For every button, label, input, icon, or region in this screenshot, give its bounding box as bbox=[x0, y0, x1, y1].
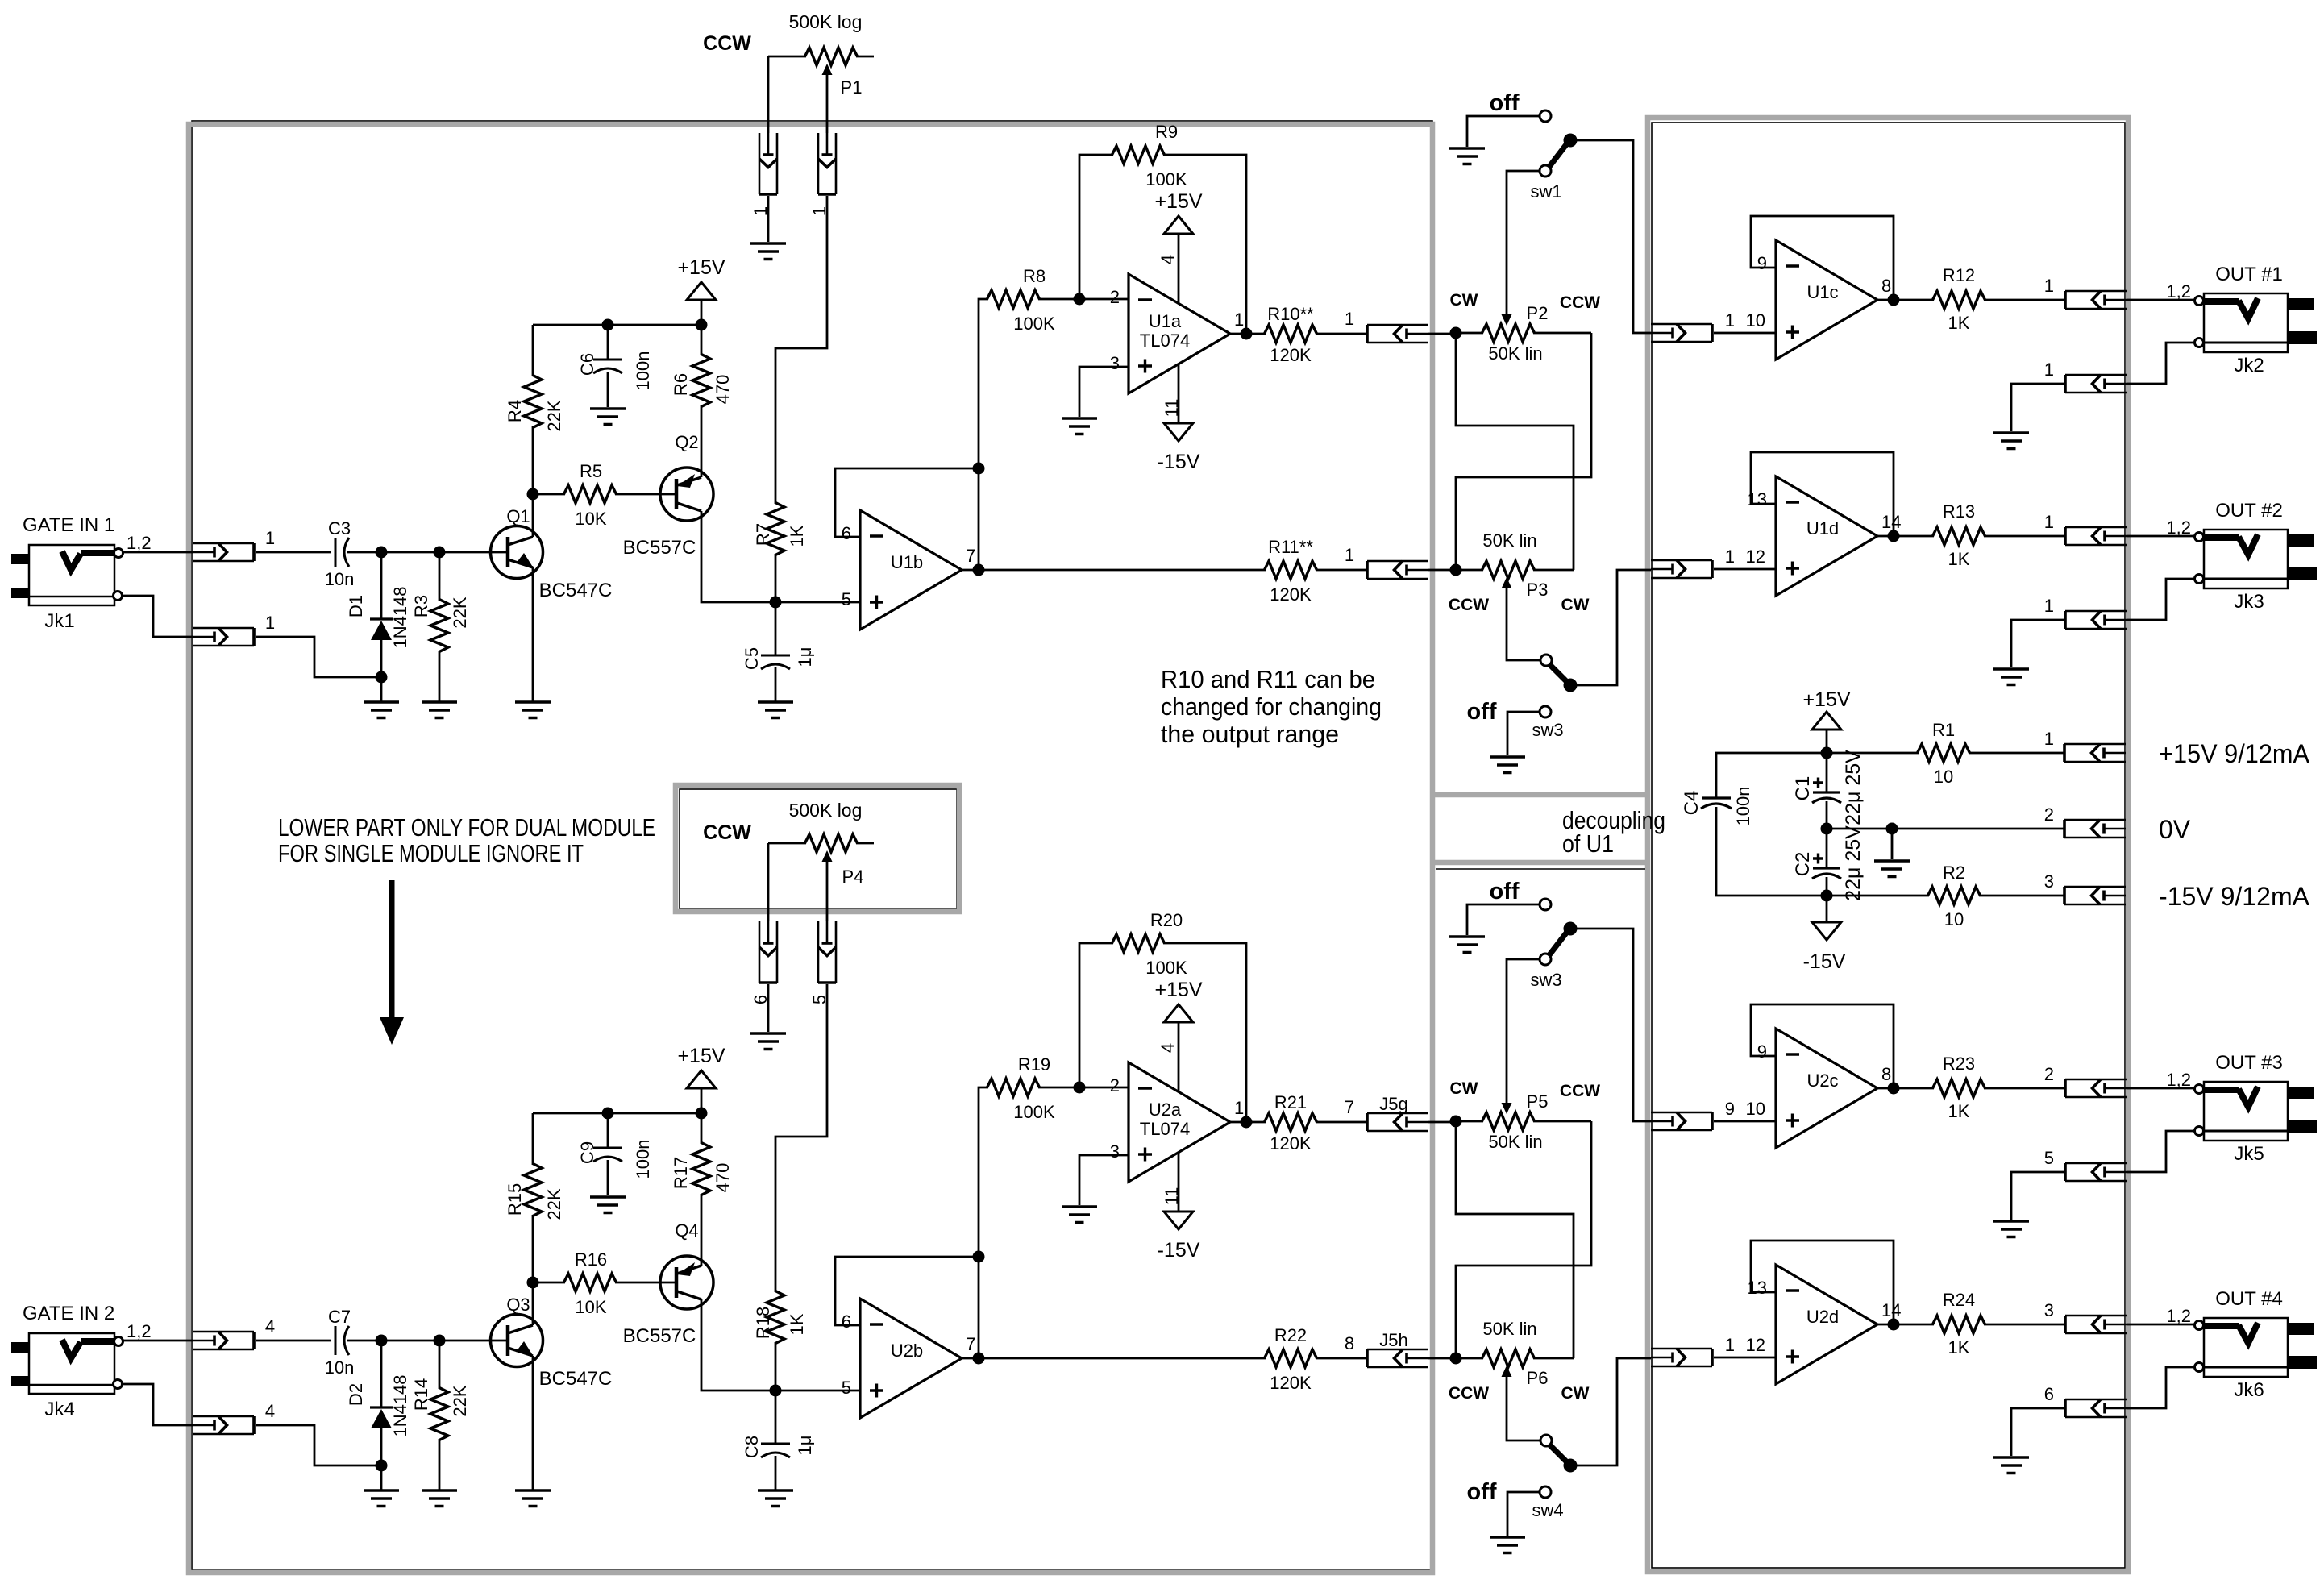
svg-text:2: 2 bbox=[1110, 1075, 1120, 1095]
svg-text:R2: R2 bbox=[1943, 863, 1965, 883]
ground bbox=[1993, 1221, 2029, 1237]
svg-text:OUT #1: OUT #1 bbox=[2215, 264, 2283, 285]
wire P1 CCW end down bbox=[767, 56, 770, 133]
svg-text:C2: C2 bbox=[1792, 852, 1814, 877]
op-amp U2b bbox=[860, 1299, 962, 1418]
svg-text:R20: R20 bbox=[1150, 910, 1183, 930]
ground bbox=[1993, 433, 2029, 449]
wire 0V rail bbox=[1821, 823, 1833, 835]
svg-text:470: 470 bbox=[713, 375, 733, 405]
wire connector to ground bbox=[2011, 620, 2065, 667]
svg-text:22μ 25V: 22μ 25V bbox=[1842, 750, 1865, 825]
wire crossover P2-right to P3-left bbox=[1456, 333, 1591, 570]
resistor R7 1K bbox=[767, 503, 784, 555]
connector pin 1 (gate tip) bbox=[193, 543, 254, 561]
svg-text:100n: 100n bbox=[1733, 787, 1753, 826]
svg-text:1,2: 1,2 bbox=[2166, 1306, 2191, 1326]
ground bbox=[422, 702, 457, 718]
svg-text:1: 1 bbox=[2044, 360, 2054, 380]
frame output section box bbox=[1652, 123, 2125, 1568]
op-amp U1c bbox=[1776, 240, 1877, 360]
svg-text:10n: 10n bbox=[325, 569, 355, 589]
resistor R12 1K bbox=[1933, 291, 1985, 309]
svg-text:1,2: 1,2 bbox=[127, 533, 152, 553]
svg-text:1: 1 bbox=[1234, 1098, 1244, 1118]
svg-text:D1: D1 bbox=[346, 595, 366, 617]
connector pin 6 (P4 ccw) bbox=[759, 921, 777, 983]
transistor Q1 BC547C (NPN) bbox=[491, 526, 543, 579]
wire pole to P2 wiper bbox=[1507, 171, 1540, 314]
resistor R13 1K bbox=[1933, 527, 1985, 545]
svg-text:1: 1 bbox=[265, 528, 275, 548]
svg-text:120K: 120K bbox=[1270, 345, 1312, 365]
wire feedback U1b bbox=[835, 1257, 979, 1325]
wire Q collector up bbox=[532, 1282, 534, 1325]
svg-text:11: 11 bbox=[1162, 399, 1182, 418]
svg-text:R18: R18 bbox=[753, 1307, 773, 1339]
ground bbox=[590, 1197, 626, 1213]
svg-text:1K: 1K bbox=[1948, 1101, 1970, 1121]
svg-text:1,2: 1,2 bbox=[2166, 281, 2191, 301]
svg-text:1μ: 1μ bbox=[795, 1436, 815, 1456]
svg-text:10K: 10K bbox=[575, 1297, 606, 1317]
transistor Q4 BC557C (PNP) bbox=[660, 1256, 713, 1309]
diode D1 1N4148 bbox=[380, 552, 383, 619]
wire to ground bbox=[1891, 829, 1894, 859]
svg-text:R11**: R11** bbox=[1268, 537, 1313, 557]
wire connector to diode node bbox=[256, 1425, 376, 1465]
wire U1c output bbox=[1877, 299, 1934, 301]
svg-text:4: 4 bbox=[265, 1401, 275, 1421]
capacitor C4 100n bbox=[1702, 796, 1731, 799]
svg-text:R19: R19 bbox=[1018, 1054, 1050, 1075]
svg-text:off: off bbox=[1489, 879, 1519, 904]
svg-text:1: 1 bbox=[2044, 596, 2054, 616]
svg-text:1: 1 bbox=[265, 613, 275, 633]
capacitor C5 1u bbox=[775, 602, 777, 655]
svg-text:Q1: Q1 bbox=[506, 506, 530, 526]
wire sw3 to op-amp connector bbox=[1576, 929, 1651, 1121]
wire P3 wiper to switch bbox=[1507, 588, 1540, 660]
op-amp U2c bbox=[1776, 1029, 1877, 1148]
svg-text:changed for changing: changed for changing bbox=[1161, 692, 1382, 721]
svg-text:500K log: 500K log bbox=[789, 800, 863, 821]
svg-text:6: 6 bbox=[2044, 1384, 2054, 1404]
svg-text:9: 9 bbox=[1757, 1041, 1767, 1062]
svg-text:sw4: sw4 bbox=[1532, 1500, 1563, 1520]
resistor R5 10K bbox=[533, 493, 565, 496]
svg-text:CCW: CCW bbox=[1560, 293, 1600, 312]
wire U1a output bbox=[1230, 333, 1266, 335]
capacitor C2 22u 25V bbox=[1826, 829, 1828, 868]
wire crossover P2-left to P3-right bbox=[1456, 333, 1574, 570]
svg-text:C6: C6 bbox=[577, 353, 597, 376]
svg-text:22K: 22K bbox=[450, 1385, 470, 1416]
svg-text:CW: CW bbox=[1450, 291, 1478, 310]
svg-text:J5g: J5g bbox=[1379, 1094, 1407, 1114]
svg-text:R23: R23 bbox=[1943, 1054, 1975, 1074]
svg-text:U1c: U1c bbox=[1806, 282, 1838, 302]
wire connector to ground bbox=[2011, 1408, 2065, 1456]
wire Q emitter to ground bbox=[532, 1356, 534, 1490]
op-amp U1a bbox=[1129, 274, 1230, 393]
svg-text:R14: R14 bbox=[411, 1378, 431, 1411]
resistor R9 100K (feedback) bbox=[1079, 155, 1113, 299]
svg-text:22K: 22K bbox=[544, 400, 564, 431]
svg-text:+15V: +15V bbox=[1154, 190, 1202, 213]
svg-text:10n: 10n bbox=[325, 1357, 355, 1378]
svg-text:1,2: 1,2 bbox=[2166, 518, 2191, 538]
wire node to R8 bbox=[979, 299, 988, 570]
svg-text:BC557C: BC557C bbox=[623, 1325, 696, 1347]
wire connector to diode node bbox=[256, 637, 376, 677]
resistor R3 22K bbox=[439, 552, 441, 601]
resistor R2 10 bbox=[1928, 887, 1981, 904]
connector pin 4 (gate tip) bbox=[193, 1332, 254, 1349]
svg-text:100K: 100K bbox=[1013, 314, 1055, 334]
frame switch box channel 1 bottom bar bbox=[1430, 792, 1650, 798]
wire C3 to Q base bbox=[347, 551, 506, 554]
ground bbox=[515, 702, 551, 718]
svg-text:CCW: CCW bbox=[1449, 596, 1489, 614]
svg-text:U1d: U1d bbox=[1806, 518, 1839, 538]
svg-text:TL074: TL074 bbox=[1140, 330, 1190, 351]
wire jack sleeve to connector bbox=[123, 1384, 193, 1425]
transistor Q3 BC547C (NPN) bbox=[491, 1315, 543, 1367]
switch sw4 lever bbox=[1540, 1435, 1552, 1446]
svg-text:50K lin: 50K lin bbox=[1482, 1319, 1536, 1339]
ground bbox=[1490, 1537, 1525, 1553]
svg-text:C3: C3 bbox=[328, 518, 351, 538]
svg-text:OUT #2: OUT #2 bbox=[2215, 500, 2283, 522]
svg-text:1K: 1K bbox=[787, 1313, 807, 1335]
resistor R21 120K bbox=[1265, 1113, 1317, 1131]
ground bbox=[750, 1033, 786, 1050]
wire node to R8 bbox=[979, 1087, 988, 1358]
svg-text:1K: 1K bbox=[787, 525, 807, 547]
ground bbox=[1993, 669, 2029, 685]
arrow down bbox=[389, 880, 395, 1017]
resistor R19 100K bbox=[987, 1079, 1040, 1096]
svg-text:0V: 0V bbox=[2159, 815, 2191, 844]
wire crossover P2-right to P3-left bbox=[1456, 1121, 1591, 1358]
switch sw1 lever bbox=[1540, 165, 1551, 177]
ground bbox=[1490, 757, 1525, 773]
svg-text:GATE IN 2: GATE IN 2 bbox=[23, 1303, 114, 1324]
svg-text:3: 3 bbox=[1110, 1141, 1120, 1162]
op-amp U2d bbox=[1776, 1265, 1877, 1384]
svg-text:100n: 100n bbox=[633, 351, 653, 391]
svg-text:R3: R3 bbox=[411, 595, 431, 617]
wire connector to op-amp bbox=[1714, 1357, 1776, 1359]
ground bbox=[515, 1490, 551, 1507]
svg-text:P4: P4 bbox=[842, 867, 864, 887]
svg-text:-15V 9/12mA: -15V 9/12mA bbox=[2159, 882, 2310, 911]
svg-text:sw1: sw1 bbox=[1530, 181, 1561, 202]
ground bbox=[1449, 937, 1485, 953]
wire U1b output bbox=[962, 1357, 979, 1360]
svg-text:1,2: 1,2 bbox=[127, 1321, 152, 1341]
svg-text:1: 1 bbox=[1725, 547, 1735, 567]
resistor R10** 120K bbox=[1265, 325, 1317, 343]
svg-text:C9: C9 bbox=[577, 1141, 597, 1164]
ground bbox=[758, 702, 793, 718]
wire connector to C3 bbox=[256, 1340, 331, 1342]
svg-text:10: 10 bbox=[1944, 909, 1964, 929]
wire jack tip to connector bbox=[123, 1340, 193, 1342]
connector pin 1 (to U2d +input) bbox=[1651, 1349, 1712, 1366]
wire +15V rail bbox=[533, 324, 701, 326]
resistor R14 22K bbox=[439, 1341, 441, 1389]
svg-text:R15: R15 bbox=[505, 1183, 525, 1216]
wire P4 CCW end down bbox=[767, 843, 770, 921]
svg-text:120K: 120K bbox=[1270, 1133, 1312, 1154]
jack Jk1 (GATE IN 1) bbox=[29, 545, 114, 605]
svg-text:BC547C: BC547C bbox=[539, 580, 613, 601]
wire connector to jack bbox=[2127, 299, 2195, 301]
svg-text:R7: R7 bbox=[753, 523, 773, 546]
svg-text:R5: R5 bbox=[580, 461, 602, 481]
power +15V (pin 4) bbox=[1178, 234, 1180, 304]
capacitor C9 100n bbox=[607, 1113, 609, 1148]
wire Q2 emitter to R6 bbox=[701, 469, 703, 477]
svg-text:+15V: +15V bbox=[1154, 979, 1202, 1001]
svg-text:500K log: 500K log bbox=[789, 11, 863, 32]
frame P4 box bbox=[680, 789, 957, 909]
wire feedback U1d bbox=[1751, 452, 1894, 536]
svg-text:+15V 9/12mA: +15V 9/12mA bbox=[2159, 739, 2310, 768]
svg-text:off: off bbox=[1489, 90, 1519, 116]
potentiometer P1 500K log bbox=[805, 48, 858, 65]
svg-text:Jk5: Jk5 bbox=[2234, 1143, 2264, 1165]
wire +input pin3 to ground bbox=[1079, 1155, 1129, 1205]
svg-text:-15V: -15V bbox=[1803, 950, 1846, 973]
connector pin 1 (P1 wiper) bbox=[818, 133, 836, 194]
svg-text:C5: C5 bbox=[742, 647, 762, 670]
svg-text:1: 1 bbox=[1345, 545, 1354, 565]
svg-text:6: 6 bbox=[842, 1312, 851, 1332]
svg-text:Jk1: Jk1 bbox=[44, 610, 74, 632]
wire jack sleeve to connector bbox=[123, 596, 193, 637]
connector pin 1 (gate sleeve) bbox=[193, 628, 254, 646]
capacitor C7 10n bbox=[335, 1326, 337, 1355]
wire connector to pot bbox=[1316, 333, 1456, 335]
wire connector to op-amp bbox=[1714, 568, 1776, 571]
svg-text:1: 1 bbox=[1234, 310, 1244, 330]
wire to C4 bbox=[1716, 753, 1827, 798]
svg-text:sw3: sw3 bbox=[1532, 720, 1563, 740]
svg-text:1K: 1K bbox=[1948, 549, 1970, 569]
svg-text:470: 470 bbox=[713, 1163, 733, 1193]
svg-text:CCW: CCW bbox=[703, 821, 751, 844]
switch sw3 lever bbox=[1540, 954, 1551, 965]
wire connector to pot bbox=[1316, 1357, 1456, 1360]
svg-text:8: 8 bbox=[1881, 276, 1891, 296]
wire +input to op-amp bbox=[775, 1390, 860, 1392]
jack Jk4 (GATE IN 2) bbox=[29, 1333, 114, 1394]
svg-text:22K: 22K bbox=[544, 1188, 564, 1220]
ground bbox=[422, 1490, 457, 1507]
connector pin 1 (to U1c +input) bbox=[1651, 324, 1712, 342]
wire P4 wiper to R18 bbox=[775, 984, 827, 1292]
wire jack sleeve to connector bbox=[2127, 1131, 2194, 1172]
ground bbox=[1993, 1457, 2029, 1474]
svg-text:6: 6 bbox=[842, 523, 851, 543]
svg-text:CCW: CCW bbox=[1449, 1384, 1489, 1403]
svg-text:10K: 10K bbox=[575, 509, 606, 529]
svg-text:12: 12 bbox=[1746, 547, 1765, 567]
svg-text:1K: 1K bbox=[1948, 313, 1970, 333]
svg-text:5: 5 bbox=[842, 1378, 851, 1398]
svg-text:10: 10 bbox=[1934, 767, 1953, 787]
wire U1d output bbox=[1877, 535, 1934, 538]
wire C3 to Q base bbox=[347, 1340, 506, 1342]
resistor R24 1K bbox=[1933, 1316, 1985, 1333]
svg-text:50K lin: 50K lin bbox=[1488, 343, 1542, 364]
svg-text:10: 10 bbox=[1746, 310, 1765, 330]
svg-text:9: 9 bbox=[1725, 1099, 1735, 1119]
svg-text:U1b: U1b bbox=[891, 552, 923, 572]
ground bbox=[1062, 1207, 1097, 1223]
svg-text:1: 1 bbox=[1345, 309, 1354, 329]
svg-text:P5: P5 bbox=[1527, 1091, 1549, 1112]
wire jack tip to connector bbox=[123, 551, 193, 554]
svg-text:P2: P2 bbox=[1527, 303, 1549, 323]
svg-text:U2d: U2d bbox=[1806, 1307, 1839, 1327]
svg-text:the output range: the output range bbox=[1161, 720, 1339, 748]
svg-text:-15V: -15V bbox=[1158, 451, 1200, 473]
svg-text:R8: R8 bbox=[1023, 266, 1046, 286]
capacitor C6 100n bbox=[607, 325, 609, 360]
resistor R15 22K bbox=[532, 1113, 534, 1165]
wire connector to pot bbox=[1316, 1121, 1456, 1124]
svg-text:R17: R17 bbox=[671, 1157, 691, 1189]
wire connector to ground bbox=[2011, 1172, 2065, 1220]
power -15V (pin 11) bbox=[1178, 364, 1180, 423]
capacitor C8 1u bbox=[775, 1391, 777, 1444]
svg-text:U1a: U1a bbox=[1149, 311, 1182, 331]
svg-text:P1: P1 bbox=[841, 77, 863, 98]
svg-text:2: 2 bbox=[2044, 804, 2054, 825]
svg-text:7: 7 bbox=[1345, 1097, 1354, 1117]
wire +15V rail bbox=[1821, 747, 1833, 759]
svg-text:1μ: 1μ bbox=[795, 647, 815, 667]
potentiometer P5 50K lin bbox=[1450, 1116, 1462, 1128]
wire feedback U1c bbox=[1751, 216, 1894, 300]
connector pin 1 (P1 ccw) bbox=[759, 133, 777, 194]
wire crossover P2-left to P3-right bbox=[1456, 1121, 1574, 1358]
wire sw3 to op-amp connector bbox=[1576, 570, 1651, 685]
wire Q2 collector down to +input node bbox=[701, 511, 775, 602]
ground bbox=[750, 243, 786, 260]
svg-text:off: off bbox=[1466, 699, 1496, 725]
capacitor C3 10n bbox=[335, 538, 337, 567]
svg-text:1: 1 bbox=[2044, 729, 2054, 749]
svg-text:Jk6: Jk6 bbox=[2234, 1379, 2264, 1401]
resistor R18 1K bbox=[767, 1291, 784, 1344]
svg-text:P3: P3 bbox=[1527, 580, 1549, 600]
wire +input pin3 to ground bbox=[1079, 367, 1129, 417]
svg-text:100K: 100K bbox=[1145, 958, 1187, 978]
resistor R6 470 bbox=[701, 325, 703, 355]
resistor R20 100K (feedback) bbox=[1079, 943, 1113, 1087]
svg-text:1,2: 1,2 bbox=[2166, 1070, 2191, 1090]
wire feedback U2c bbox=[1751, 1004, 1894, 1088]
svg-text:R16: R16 bbox=[575, 1249, 607, 1270]
switch sw3 lever bbox=[1540, 655, 1552, 666]
wire connector to C3 bbox=[256, 551, 331, 554]
svg-text:8: 8 bbox=[1345, 1333, 1354, 1353]
svg-text:14: 14 bbox=[1881, 512, 1901, 532]
svg-text:D2: D2 bbox=[346, 1383, 366, 1406]
wire -15V rail bbox=[1821, 890, 1833, 902]
svg-text:CW: CW bbox=[1450, 1079, 1478, 1098]
svg-text:R1: R1 bbox=[1932, 720, 1955, 740]
svg-text:Q3: Q3 bbox=[506, 1295, 530, 1315]
svg-text:R6: R6 bbox=[671, 373, 691, 396]
svg-text:100n: 100n bbox=[633, 1140, 653, 1179]
wire P6 wiper to switch bbox=[1507, 1377, 1540, 1440]
svg-text:+15V: +15V bbox=[677, 256, 725, 279]
svg-text:1K: 1K bbox=[1948, 1337, 1970, 1357]
connector pin 1 (to U1d +input) bbox=[1651, 560, 1712, 578]
svg-text:R9: R9 bbox=[1155, 122, 1178, 142]
svg-text:9: 9 bbox=[1757, 253, 1767, 273]
ground bbox=[758, 1490, 793, 1507]
wire connector to jack bbox=[2127, 535, 2195, 538]
wire connector to op-amp bbox=[1714, 332, 1776, 335]
svg-text:3: 3 bbox=[1110, 353, 1120, 373]
ground bbox=[364, 702, 399, 718]
op-amp U1d bbox=[1776, 476, 1877, 596]
svg-text:10: 10 bbox=[1746, 1099, 1765, 1119]
potentiometer P2 50K lin bbox=[1450, 327, 1462, 339]
connector pin 5 (P4 wiper) bbox=[818, 921, 836, 983]
svg-text:7: 7 bbox=[966, 1334, 975, 1354]
svg-text:off: off bbox=[1466, 1479, 1496, 1505]
resistor R8 100K bbox=[987, 290, 1040, 308]
svg-text:50K lin: 50K lin bbox=[1488, 1132, 1542, 1152]
wire jack sleeve to connector bbox=[2127, 579, 2194, 620]
resistor R23 1K bbox=[1933, 1079, 1985, 1097]
svg-text:R4: R4 bbox=[505, 400, 525, 422]
power +15V (pin 4) bbox=[1178, 1022, 1180, 1092]
svg-text:R10 and R11 can be: R10 and R11 can be bbox=[1161, 665, 1375, 693]
svg-text:U2b: U2b bbox=[891, 1341, 923, 1361]
op-amp U1b bbox=[860, 510, 962, 630]
wire Q emitter to ground bbox=[532, 567, 534, 702]
power +15V bbox=[687, 1070, 716, 1088]
svg-text:C1: C1 bbox=[1792, 776, 1814, 801]
wire U1a output bbox=[1230, 1121, 1266, 1124]
svg-text:BC557C: BC557C bbox=[623, 537, 696, 559]
svg-text:1N4148: 1N4148 bbox=[390, 1374, 410, 1436]
wire connector to jack bbox=[2127, 1087, 2195, 1090]
wire U2d output bbox=[1877, 1324, 1934, 1326]
wire connector to jack bbox=[2127, 1324, 2195, 1326]
wire sw4 to op-amp connector bbox=[1576, 1358, 1651, 1465]
svg-text:11: 11 bbox=[1162, 1187, 1182, 1206]
resistor R22 120K bbox=[979, 1357, 1266, 1360]
svg-text:2: 2 bbox=[2044, 1064, 2054, 1084]
ground bbox=[1449, 148, 1485, 164]
svg-text:R10**: R10** bbox=[1267, 304, 1314, 324]
svg-text:3: 3 bbox=[2044, 1300, 2054, 1320]
svg-text:OUT #4: OUT #4 bbox=[2215, 1288, 2283, 1310]
wire to ground bbox=[767, 984, 770, 1032]
power -15V bbox=[1826, 896, 1828, 922]
svg-text:4: 4 bbox=[265, 1316, 275, 1336]
